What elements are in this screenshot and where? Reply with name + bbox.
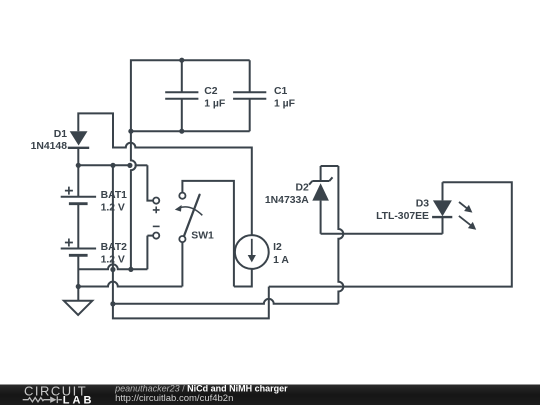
svg-text:1 µF: 1 µF (274, 99, 295, 110)
svg-text:C1: C1 (274, 86, 288, 97)
svg-text:LAB: LAB (63, 394, 95, 405)
svg-text:1.2 V: 1.2 V (101, 255, 125, 266)
svg-text:1N4733A: 1N4733A (265, 195, 309, 206)
svg-text:1N4148: 1N4148 (31, 141, 68, 152)
svg-text:I2: I2 (273, 242, 282, 253)
svg-text:D3: D3 (416, 198, 430, 209)
svg-text:peanuthacker23 / NiCd and NiMH: peanuthacker23 / NiCd and NiMH charger (114, 383, 288, 393)
svg-text:LTL-307EE: LTL-307EE (376, 211, 429, 222)
svg-text:1 µF: 1 µF (204, 99, 225, 110)
svg-text:SW1: SW1 (191, 231, 214, 242)
svg-text:1.2 V: 1.2 V (101, 203, 125, 214)
svg-text:D2: D2 (296, 182, 310, 193)
svg-text:1 A: 1 A (273, 255, 289, 266)
svg-text:BAT1: BAT1 (101, 190, 128, 201)
svg-text:BAT2: BAT2 (101, 242, 128, 253)
svg-text:C2: C2 (204, 86, 218, 97)
svg-text:http://circuitlab.com/cuf4b2n: http://circuitlab.com/cuf4b2n (115, 393, 233, 404)
svg-text:D1: D1 (54, 129, 68, 140)
